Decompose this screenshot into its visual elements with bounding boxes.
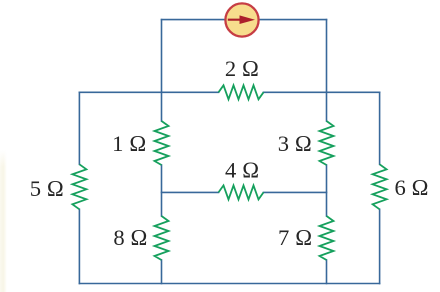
wire second rail right of 2ohm — [264, 91, 380, 93]
wire left outer upper — [78, 92, 80, 164]
wire right inner top — [326, 20, 328, 121]
resistor 5ohm zigzag — [72, 164, 86, 209]
resistor 4ohm zigzag — [219, 185, 264, 199]
svg-text:8 Ω: 8 Ω — [113, 225, 147, 250]
svg-text:3 Ω: 3 Ω — [278, 131, 312, 156]
svg-text:6 Ω: 6 Ω — [394, 175, 428, 200]
current source circle — [225, 3, 258, 36]
resistor 3ohm zigzag — [320, 121, 334, 165]
wire left inner mid — [161, 165, 163, 216]
wire top rail — [162, 19, 327, 21]
wire bottom rail — [79, 283, 379, 285]
svg-text:5 Ω: 5 Ω — [30, 176, 64, 201]
svg-text:2 Ω: 2 Ω — [225, 56, 259, 81]
wire second rail left of 2ohm — [79, 91, 218, 93]
wire left outer lower — [78, 209, 80, 283]
wire right outer lower — [379, 209, 381, 283]
wire right inner bottom — [326, 260, 328, 284]
svg-text:7 Ω: 7 Ω — [278, 225, 312, 250]
page edge tint — [0, 150, 7, 292]
wire middle rail right of 4ohm — [264, 191, 327, 193]
resistor 1ohm zigzag — [155, 121, 169, 165]
wire left inner top — [161, 20, 163, 121]
wire left inner bottom — [161, 260, 163, 284]
resistor 6ohm zigzag — [373, 164, 387, 209]
wire right outer upper — [379, 92, 381, 164]
resistor 7ohm zigzag — [320, 216, 334, 260]
resistor 8ohm zigzag — [155, 216, 169, 260]
current source arrow — [228, 15, 255, 24]
svg-text:1 Ω: 1 Ω — [112, 131, 146, 156]
wire right inner mid — [326, 165, 328, 216]
wire middle rail left of 4ohm — [162, 191, 219, 193]
svg-text:4 Ω: 4 Ω — [225, 157, 259, 182]
resistor 2ohm zigzag — [219, 85, 264, 99]
